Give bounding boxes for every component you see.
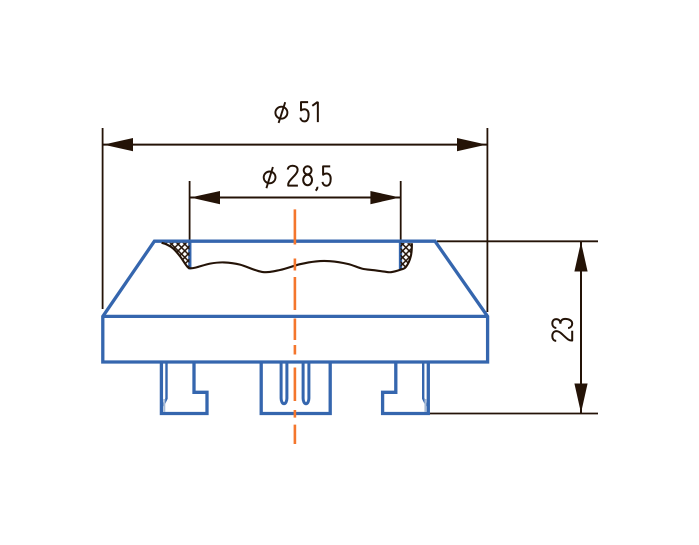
housing body outline — [103, 241, 488, 362]
dimension D51 arrowhead left — [104, 138, 134, 151]
recess wall left — [188, 241, 191, 269]
dimension D28.5 line — [190, 197, 400, 199]
tab right pin slot — [423, 362, 427, 412]
surround gasket cross-section right (crosshatch) — [400, 243, 412, 270]
dimension D51 extension line right — [486, 128, 488, 312]
dimension D28.5 extension line left — [189, 181, 191, 243]
dimension D51 diameter symbol — [275, 102, 287, 123]
dimension 23 arrowhead top — [574, 242, 587, 272]
dimension D28.5 value 28,5 — [288, 166, 331, 191]
membrane profile line — [162, 243, 412, 272]
connector block middle — [261, 362, 330, 414]
dimension D28.5 extension line right — [400, 181, 402, 243]
tab left pin slot — [163, 362, 167, 412]
dimension 23 value 23 — [552, 319, 572, 341]
dimension D28.5 diameter symbol — [264, 167, 276, 188]
surround gasket cross-section left (crosshatch) — [162, 243, 190, 268]
dimension 23 extension line top — [437, 240, 598, 242]
dimension D28.5 arrowhead right — [370, 191, 400, 204]
connector slot 2 — [303, 362, 309, 404]
housing flange top edge — [103, 315, 488, 318]
dimension 23 extension line bottom — [427, 413, 598, 415]
centerline — [294, 209, 297, 444]
connector slot 1 — [281, 362, 287, 404]
dimension D51 value 51 — [300, 102, 317, 122]
dimension D28.5 arrowhead left — [190, 191, 220, 204]
dimension D51 arrowhead right — [457, 138, 487, 151]
recess wall right — [399, 241, 402, 269]
dimension D51 extension line left — [102, 128, 104, 309]
dimension 23 arrowhead bottom — [574, 384, 587, 414]
dimension 23 line — [580, 242, 582, 413]
mounting tab left — [161, 362, 207, 414]
mounting tab right — [383, 362, 429, 414]
dimension D51 line — [103, 144, 487, 146]
